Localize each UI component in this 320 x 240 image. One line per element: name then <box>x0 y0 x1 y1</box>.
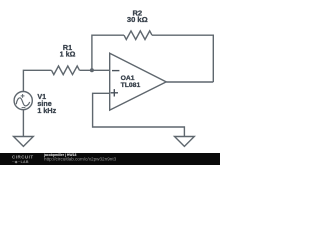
op-amp label OA1 <box>121 75 135 82</box>
resistor R2 <box>124 31 152 40</box>
op-amp label TL081 <box>121 82 141 89</box>
R2 label <box>132 9 142 18</box>
wire V1 bottom to ground <box>22 110 24 137</box>
wire R1 to inverting input <box>80 69 110 71</box>
op-amp plus sign <box>111 89 118 96</box>
R1 value 1 kΩ <box>60 50 76 59</box>
wire junction up to R2 <box>92 35 124 70</box>
wire R2 to feedback corner <box>152 35 213 82</box>
V1 minus polarity <box>22 107 26 109</box>
wire from V1 top to R1 <box>23 70 51 91</box>
watermark url text <box>44 158 116 163</box>
CircuitLab logo text <box>12 155 34 165</box>
V1 plus polarity <box>21 94 25 98</box>
V1 frequency 1 kHz <box>37 106 56 115</box>
wire op-amp output <box>166 81 213 83</box>
R2 value 30 kΩ <box>127 15 148 24</box>
node junction dot <box>90 68 94 72</box>
op-amp minus sign <box>112 70 119 72</box>
V1 type sine <box>37 99 51 108</box>
watermark author text <box>44 154 76 157</box>
svg-text:30 kΩ: 30 kΩ <box>127 15 148 24</box>
watermark footer bar <box>0 153 220 165</box>
voltage source V1 circle <box>14 92 32 110</box>
svg-text:1 kHz: 1 kHz <box>37 106 56 115</box>
ground right <box>175 137 195 147</box>
svg-text:TL081: TL081 <box>121 82 141 89</box>
op-amp OA1 triangle <box>110 53 167 110</box>
svg-text:1 kΩ: 1 kΩ <box>60 50 76 59</box>
wire non-inverting input to ground run <box>93 93 185 136</box>
V1 label <box>37 92 46 101</box>
resistor R1 <box>52 66 80 75</box>
V1 sine waveform <box>16 98 30 106</box>
ground left <box>14 137 34 147</box>
R1 label <box>63 43 72 52</box>
